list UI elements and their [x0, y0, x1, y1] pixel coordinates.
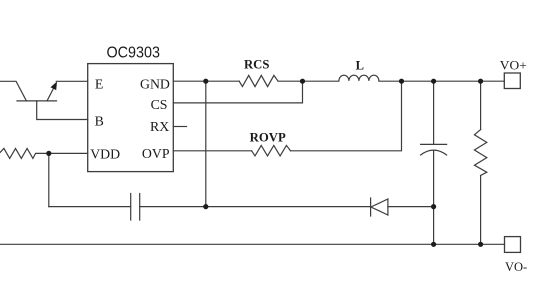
svg-text:OC9303: OC9303	[107, 45, 161, 62]
svg-text:CS: CS	[151, 97, 168, 112]
svg-text:ROVP: ROVP	[250, 131, 286, 145]
svg-text:RX: RX	[150, 119, 169, 134]
svg-text:VO-: VO-	[505, 260, 527, 274]
svg-text:GND: GND	[140, 76, 170, 91]
svg-text:RCS: RCS	[244, 57, 269, 71]
svg-text:E: E	[95, 76, 103, 91]
svg-text:L: L	[356, 58, 364, 72]
svg-text:OVP: OVP	[142, 146, 170, 161]
svg-text:VDD: VDD	[90, 146, 120, 161]
svg-text:VO+: VO+	[500, 58, 527, 72]
svg-text:B: B	[95, 114, 104, 129]
